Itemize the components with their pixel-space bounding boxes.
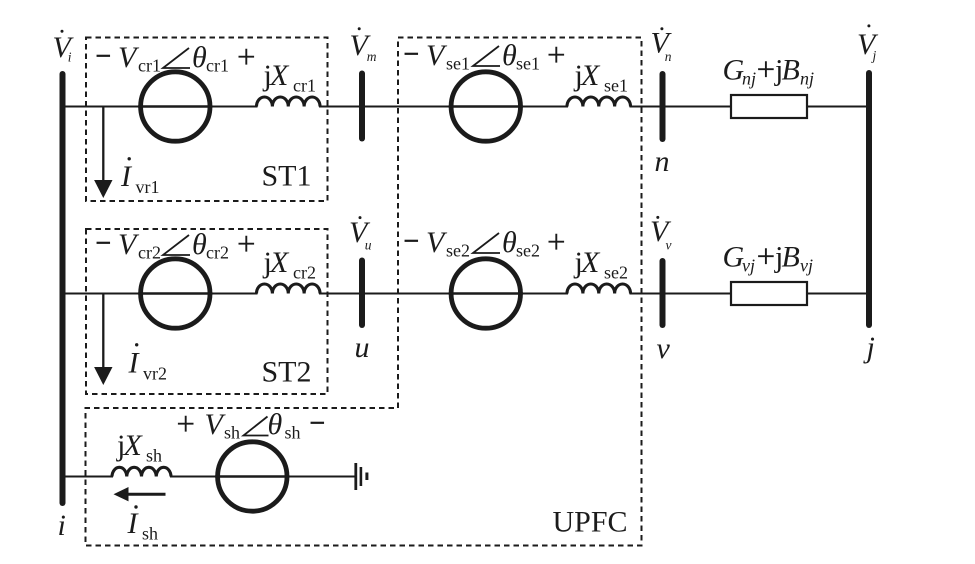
- bus v: [660, 261, 666, 325]
- arrow current Ivr1: [94, 107, 112, 199]
- svg-text:X: X: [269, 246, 290, 279]
- label V_n: [651, 27, 673, 65]
- svg-text:se2: se2: [604, 263, 628, 283]
- inductor jXcr1: [257, 97, 321, 107]
- svg-text:cr1: cr1: [293, 76, 316, 96]
- wire row 1 bus i to inductor jXcr1: [63, 106, 258, 108]
- svg-text:ST1: ST1: [262, 160, 312, 193]
- svg-text:cr2: cr2: [206, 243, 229, 263]
- voltage source Vsh: [215, 442, 289, 511]
- label node i: [58, 509, 66, 542]
- svg-text:n: n: [655, 145, 670, 178]
- svg-text:sh: sh: [285, 423, 301, 443]
- wire row 1 resistor to bus j: [807, 106, 869, 108]
- label -Vcr1/theta_cr1+: [97, 41, 255, 76]
- wire row 2 inductor jXcr2 to inductor jXse2: [319, 293, 568, 295]
- svg-text:X: X: [580, 59, 601, 92]
- resistor Gnj+jBnj: [731, 95, 807, 118]
- svg-text:θ: θ: [192, 41, 207, 74]
- svg-text:v: v: [666, 238, 672, 253]
- svg-text:θ: θ: [268, 408, 283, 441]
- arrow current Ish: [114, 487, 166, 501]
- dashed outline UPFC with series-branch enclosure: [86, 38, 642, 546]
- svg-text:sh: sh: [224, 423, 240, 443]
- svg-text:cr2: cr2: [138, 243, 161, 263]
- wire row 1 inductor jXcr1 to inductor jXse1: [319, 106, 568, 108]
- inductor jXcr2: [257, 284, 321, 294]
- dashed box ST2: [86, 229, 328, 394]
- svg-text:θ: θ: [502, 226, 517, 259]
- svg-text:cr1: cr1: [138, 56, 161, 76]
- label V_u: [349, 216, 372, 253]
- svg-text:X: X: [269, 59, 290, 92]
- svg-text:vr2: vr2: [143, 364, 167, 384]
- bus j: [866, 73, 872, 325]
- resistor Gvj+jBvj: [731, 282, 807, 305]
- label node n: [655, 145, 670, 178]
- ground: [356, 463, 367, 490]
- inductor jXsh: [112, 467, 171, 476]
- svg-text:m: m: [367, 49, 377, 64]
- label Gnj+jBnj: [723, 54, 815, 89]
- svg-text:nj: nj: [800, 69, 814, 89]
- label jXse1: [574, 59, 629, 96]
- svg-text:θ: θ: [192, 228, 207, 261]
- voltage source Vse2: [449, 259, 523, 328]
- svg-text:vj: vj: [742, 256, 755, 276]
- svg-text:sh: sh: [142, 524, 158, 544]
- label node j: [863, 331, 875, 364]
- svg-text:ST2: ST2: [262, 356, 312, 389]
- dashed box ST1: [86, 38, 328, 202]
- label jXse2: [574, 246, 629, 283]
- svg-text:vr1: vr1: [136, 177, 160, 197]
- label jXcr1: [263, 59, 316, 96]
- voltage source Vcr1: [138, 72, 212, 141]
- inductor jXse2: [567, 284, 631, 294]
- label -Vse2/theta_se2+: [405, 226, 565, 261]
- bus u: [359, 261, 365, 326]
- svg-text:v: v: [657, 332, 671, 365]
- svg-text:cr1: cr1: [206, 56, 229, 76]
- svg-text:i: i: [58, 509, 66, 542]
- voltage source Vcr2: [138, 259, 212, 328]
- inductor jXse1: [567, 97, 631, 107]
- label ST2: [262, 356, 312, 389]
- label current Ivr1: [120, 157, 160, 197]
- label +Vsh/theta_sh-: [178, 408, 324, 443]
- svg-text:B: B: [782, 241, 800, 274]
- arrow current Ivr2: [94, 294, 112, 386]
- svg-text:se1: se1: [604, 76, 628, 96]
- svg-text:sh: sh: [146, 446, 162, 466]
- svg-text:nj: nj: [742, 69, 756, 89]
- wire shunt bus i to inductor jXsh: [63, 476, 114, 478]
- label V_m: [350, 27, 377, 64]
- wire row 2 bus i to inductor jXcr2: [63, 293, 258, 295]
- svg-text:X: X: [580, 246, 601, 279]
- label jXsh: [116, 429, 162, 466]
- wire row 1 inductor jXse1 to resistor: [630, 106, 732, 108]
- label Gvj+jBvj: [723, 241, 814, 276]
- label node v: [657, 332, 671, 365]
- svg-text:B: B: [782, 54, 800, 87]
- label V_v: [650, 215, 672, 253]
- label -Vse1/theta_se1+: [405, 39, 565, 74]
- label node u: [355, 331, 370, 364]
- label current Ish: [127, 505, 159, 543]
- label V_j: [857, 24, 879, 63]
- svg-text:UPFC: UPFC: [553, 506, 628, 539]
- svg-text:vj: vj: [800, 256, 813, 276]
- svg-text:se1: se1: [516, 54, 540, 74]
- bus m: [359, 74, 365, 139]
- bus n: [660, 74, 666, 139]
- svg-text:θ: θ: [502, 39, 517, 72]
- svg-text:n: n: [665, 49, 672, 64]
- svg-text:cr2: cr2: [293, 263, 316, 283]
- svg-text:u: u: [355, 331, 370, 364]
- bus i: [60, 74, 66, 503]
- voltage source Vse1: [449, 72, 523, 141]
- label V_i: [53, 30, 75, 65]
- label jXcr2: [263, 246, 316, 283]
- svg-text:se1: se1: [446, 54, 470, 74]
- svg-text:i: i: [68, 49, 72, 64]
- label current Ivr2: [128, 343, 168, 383]
- svg-text:u: u: [365, 238, 372, 253]
- svg-text:X: X: [123, 429, 144, 462]
- wire row 2 inductor jXse2 to resistor: [630, 293, 732, 295]
- label UPFC: [553, 506, 628, 539]
- label ST1: [262, 160, 312, 193]
- wire shunt inductor jXsh to ground: [170, 476, 355, 478]
- wire row 2 resistor to bus j: [807, 293, 869, 295]
- label -Vcr2/theta_cr2+: [97, 228, 255, 263]
- svg-text:se2: se2: [446, 241, 470, 261]
- svg-text:se2: se2: [516, 241, 540, 261]
